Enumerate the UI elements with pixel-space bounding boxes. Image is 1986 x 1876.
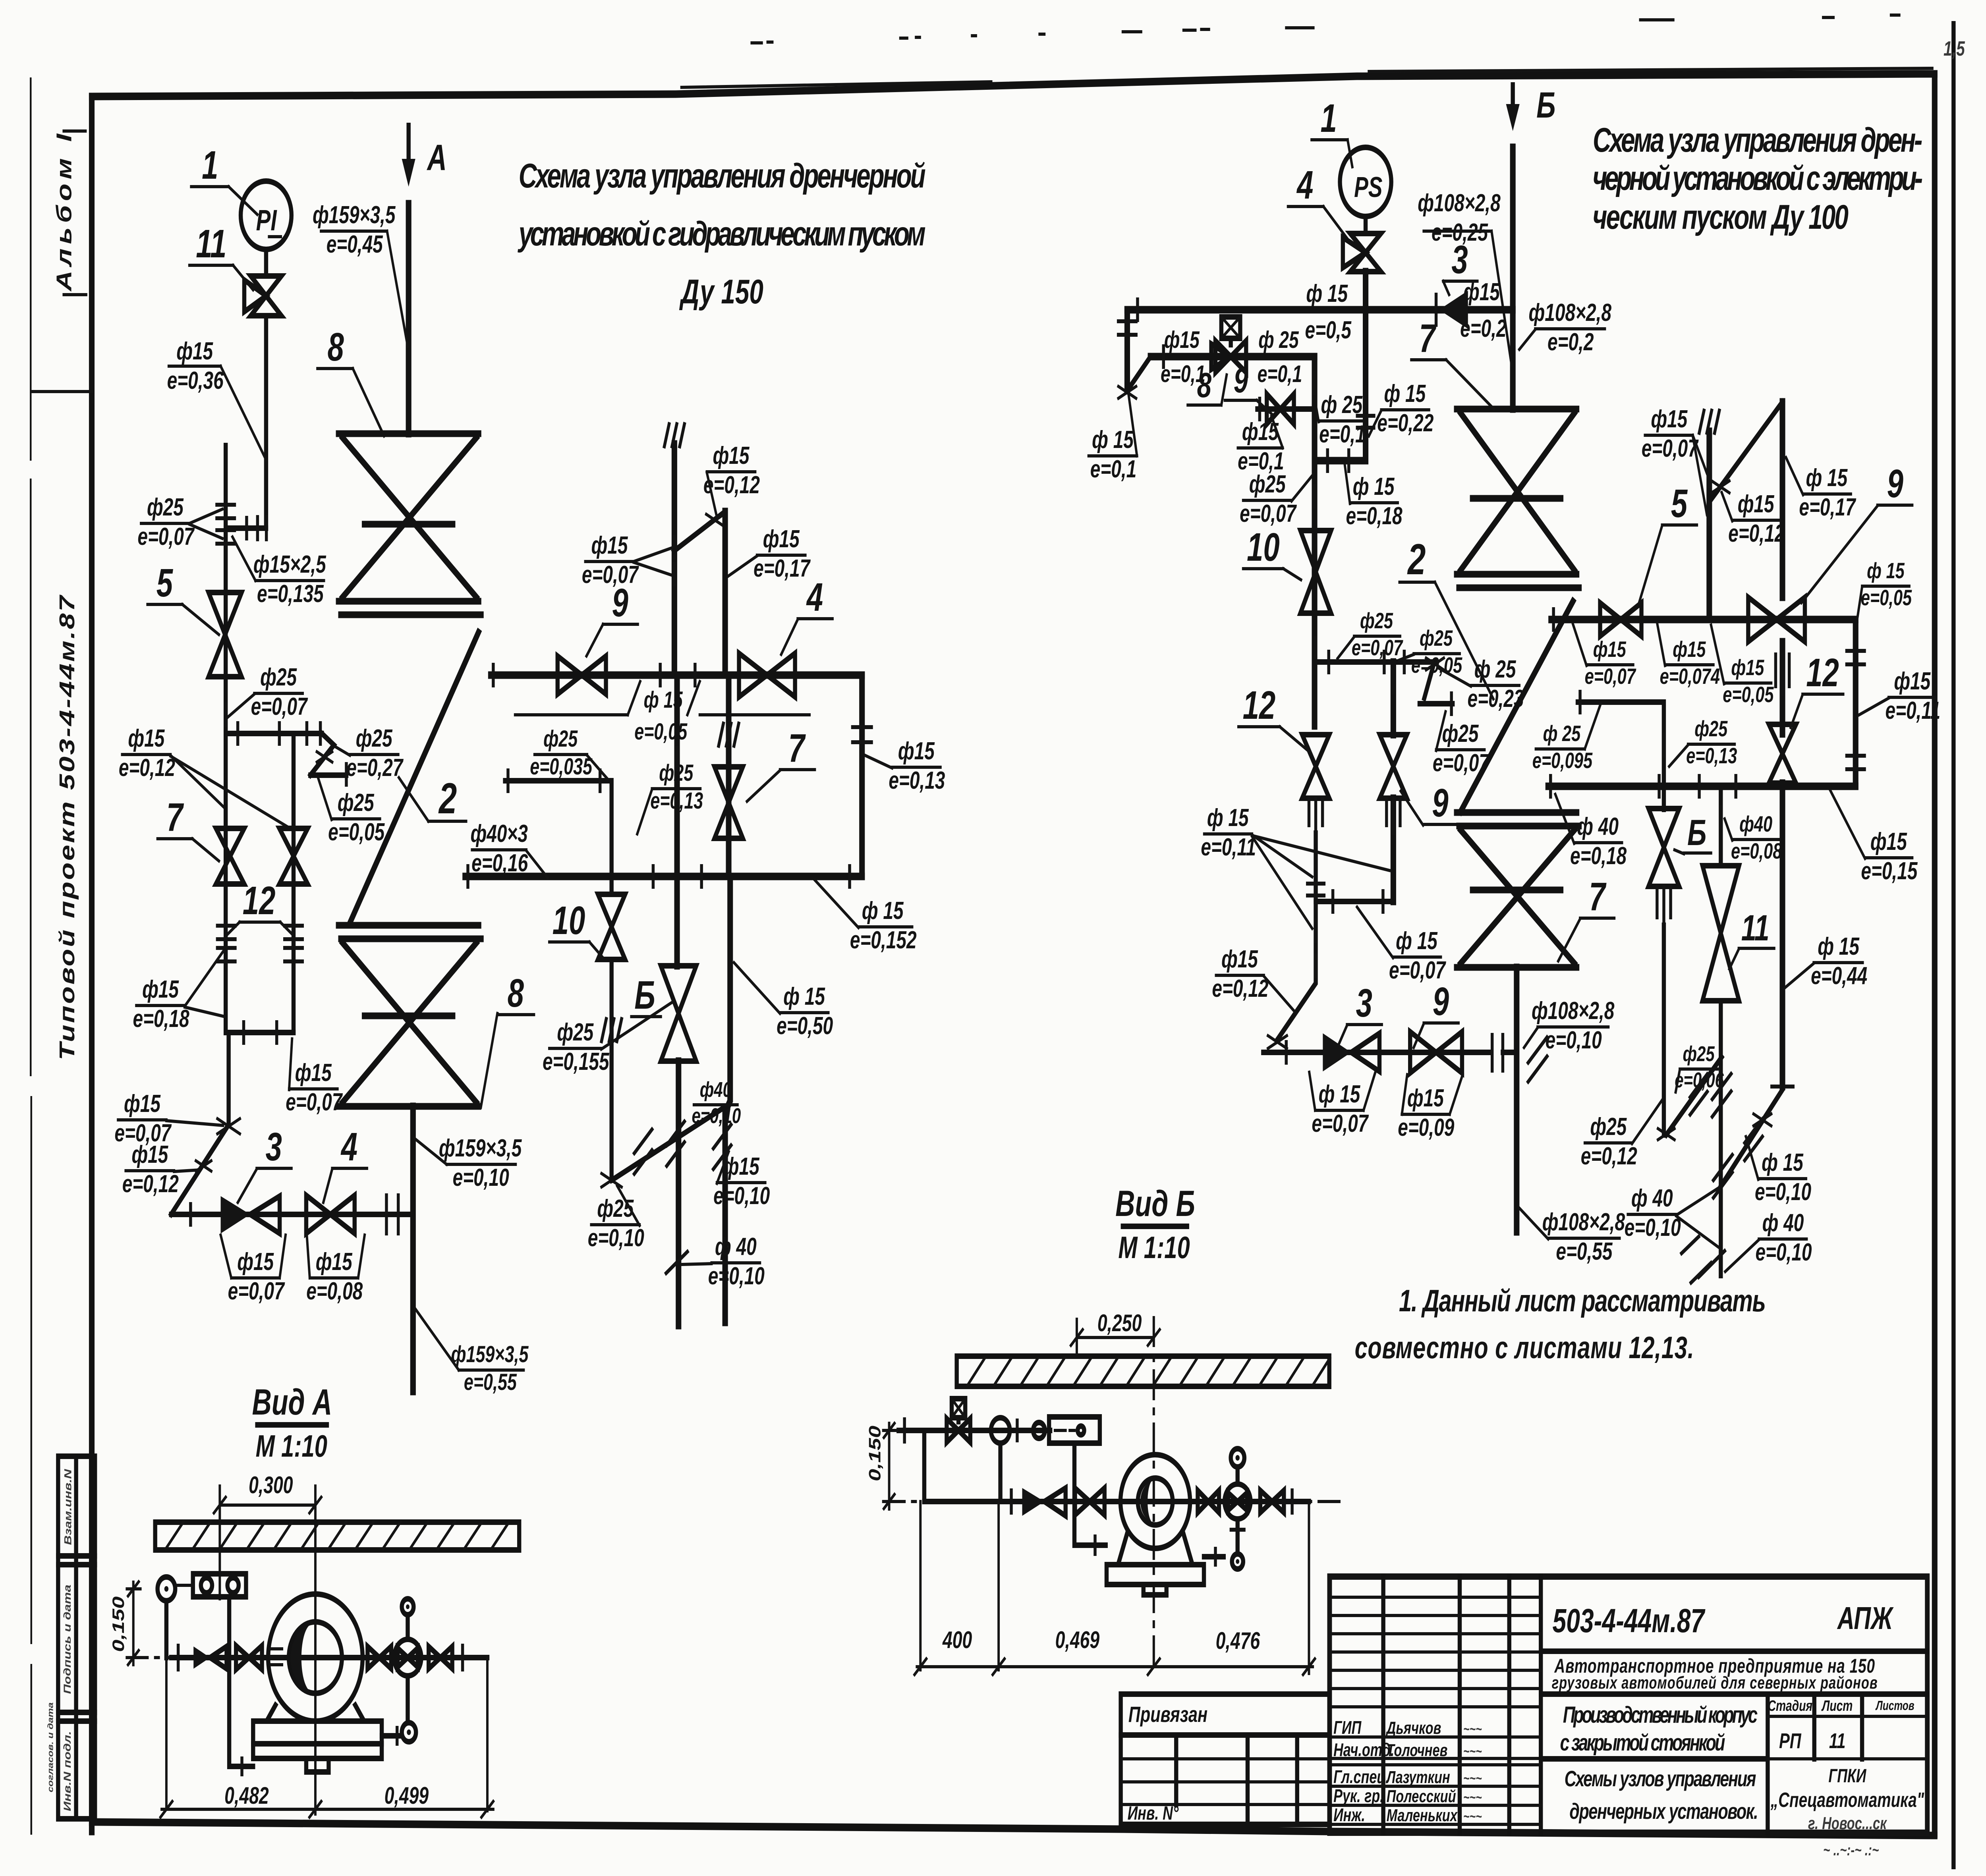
label f15 e=0,07 hm: [1573, 624, 1636, 689]
svg-text:Подпись и дата: Подпись и дата: [62, 1585, 73, 1694]
callout B M: [631, 973, 661, 1017]
right drop VR: [858, 675, 866, 876]
svg-text:„Спецавтоматика": „Спецавтоматика": [1770, 1788, 1924, 1811]
svg-text:11: 11: [196, 221, 226, 266]
svg-text:e=0,12: e=0,12: [1581, 1142, 1637, 1170]
label f15 e=0,11 vr: [1859, 667, 1941, 724]
svg-text:e=0,10: e=0,10: [1755, 1178, 1811, 1205]
tick A main: [461, 1646, 465, 1669]
f15 e=0,1 on H2: [1161, 327, 1206, 388]
gauge circle B: [991, 1418, 1010, 1443]
svg-text:ф108×2,8: ф108×2,8: [1532, 997, 1615, 1024]
svg-text:Вид А: Вид А: [252, 1382, 332, 1422]
svg-text:~~~: ~~~: [1463, 1789, 1482, 1805]
svg-text:e=0,10: e=0,10: [1755, 1238, 1812, 1266]
valve 9d: [1410, 1032, 1462, 1073]
body link right: [1204, 1554, 1224, 1559]
svg-text:e=0,152: e=0,152: [850, 926, 917, 953]
svg-text:3: 3: [1356, 980, 1372, 1025]
svg-text:ф15: ф15: [295, 1059, 332, 1086]
valve B R: [1661, 786, 1667, 809]
label f15 e=0,12 d: [122, 1141, 199, 1197]
label f15 e=0,07 e: [221, 1235, 286, 1305]
main line A: [171, 1655, 487, 1660]
svg-text:0,469: 0,469: [1055, 1627, 1100, 1654]
f15 e=0,5 on H1: [1305, 280, 1351, 344]
tick: [224, 704, 228, 725]
svg-text:ф 25: ф 25: [1258, 327, 1299, 353]
row ГИП: [1333, 1717, 1482, 1738]
svg-text:e=0,135: e=0,135: [257, 580, 324, 607]
label f108x2,8 e=0,55: [1519, 1208, 1625, 1265]
svg-text:ф 15: ф 15: [1818, 932, 1859, 960]
svg-text:3: 3: [1451, 237, 1468, 282]
svg-text:Лазуткин: Лазуткин: [1385, 1768, 1450, 1787]
svg-text:0,300: 0,300: [249, 1472, 293, 1499]
callout 8 R: [1188, 366, 1227, 405]
svg-text:7: 7: [1589, 874, 1607, 919]
svg-text:ф 15: ф 15: [862, 897, 904, 924]
svg-text:Нач.отд.: Нач.отд.: [1333, 1739, 1394, 1760]
circle valve B: [1225, 1449, 1250, 1569]
label f15 e=0,12 vd: [1722, 490, 1785, 547]
svg-text:ф15: ф15: [128, 724, 164, 752]
svg-text:e=0,06: e=0,06: [1675, 1068, 1724, 1092]
middle riser V1: [670, 444, 678, 675]
VD2 diagonal: [1721, 1090, 1782, 1186]
drencher valve 8 lower: [338, 925, 481, 1106]
stub f25 R: [1578, 702, 1664, 786]
label f25 e=0,155: [543, 1002, 672, 1075]
valve 8 solenoid: [1211, 317, 1246, 372]
svg-text:ф 15: ф 15: [1762, 1148, 1803, 1176]
dim 0,300: [214, 1472, 321, 1814]
svg-text:0,150: 0,150: [109, 1596, 128, 1652]
label f25 e=0,27: [335, 724, 404, 781]
svg-text:ф25: ф25: [1694, 716, 1728, 741]
svg-text:0,499: 0,499: [384, 1783, 429, 1809]
right drop A: [486, 1658, 489, 1811]
label f15 e=0,44: [1783, 932, 1867, 989]
svg-text:Схема узла управления дрен-: Схема узла управления дрен-: [1593, 121, 1922, 160]
svg-text:5: 5: [156, 560, 174, 605]
svg-text:ф 15: ф 15: [1867, 558, 1905, 583]
valve A1: [236, 1646, 262, 1669]
V2 lower: [725, 675, 732, 876]
svg-text:e=0,27: e=0,27: [346, 754, 404, 781]
svg-text:ф25: ф25: [338, 789, 374, 816]
box drop B: [1074, 1443, 1106, 1545]
callout 4 L: [323, 1124, 367, 1202]
frame bottom border: [92, 1822, 1935, 1835]
svg-text:ф40: ф40: [700, 1078, 732, 1102]
riser pipe B upper: [1509, 147, 1517, 409]
label f15x2,5 e=0,135: [232, 537, 326, 608]
drop with elbow: [171, 1033, 229, 1214]
label f15 e=0,18: [133, 950, 224, 1033]
horizontal header H2: [1151, 353, 1315, 361]
valve 11 R feed: [1718, 786, 1723, 866]
diag to central: [1666, 1057, 1722, 1135]
svg-text:e=0,12: e=0,12: [1728, 519, 1785, 547]
svg-text:e=0,18: e=0,18: [1346, 502, 1403, 529]
main line B: [924, 1499, 1309, 1504]
svg-text:ф 40: ф 40: [1762, 1209, 1804, 1236]
svg-text:ф15: ф15: [898, 737, 935, 764]
svg-text:Привязан: Привязан: [1128, 1702, 1207, 1727]
svg-text:~~~: ~~~: [1463, 1743, 1482, 1759]
svg-text:e=0,44: e=0,44: [1811, 962, 1867, 989]
check valve B: [1022, 1488, 1066, 1516]
svg-text:ф159×3,5: ф159×3,5: [439, 1134, 522, 1162]
label f25 e=0,07 dr: [1433, 712, 1490, 777]
svg-text:7: 7: [1419, 316, 1437, 360]
svg-text:e=0,07: e=0,07: [251, 693, 308, 720]
svg-text:12: 12: [1243, 683, 1276, 727]
label f25 e=0,07 a: [137, 493, 222, 550]
label f40 e=0,10 rb: [1725, 1209, 1812, 1272]
svg-text:e=0,05: e=0,05: [328, 818, 385, 845]
f15 e=0,2 on H1: [1460, 278, 1506, 342]
callout B R: [1675, 813, 1711, 854]
svg-text:9: 9: [1234, 361, 1248, 400]
svg-text:Маленьких: Маленьких: [1387, 1806, 1458, 1825]
svg-text:ф15: ф15: [1221, 945, 1258, 973]
V2 below ML2: [725, 876, 730, 1322]
drop V6 + H4: [1315, 272, 1366, 461]
svg-text:12: 12: [243, 878, 276, 923]
svg-text:e=0,13: e=0,13: [1686, 743, 1737, 768]
label f15 e=0,10 m: [713, 1152, 770, 1210]
svg-text:7: 7: [166, 795, 184, 839]
frame right border: [1931, 74, 1938, 1834]
svg-text:8: 8: [1197, 366, 1211, 405]
svg-text:PS: PS: [1354, 172, 1382, 203]
break flange: [1492, 1035, 1503, 1071]
svg-text:Б: Б: [634, 973, 655, 1017]
callout 10 R: [1243, 525, 1301, 580]
label f15 e=0,10 r: [1746, 1137, 1811, 1206]
svg-text:e=0,12: e=0,12: [1212, 975, 1268, 1002]
svg-text:ф108×2,8: ф108×2,8: [1542, 1208, 1625, 1235]
svg-text:Ду 150: Ду 150: [679, 273, 763, 311]
svg-text:~ ..~:-~ .:~: ~ ..~:-~ .:~: [1823, 1841, 1879, 1859]
svg-text:Б: Б: [1687, 813, 1706, 853]
svg-text:ф15: ф15: [237, 1248, 274, 1275]
svg-text:ф 15: ф 15: [1384, 380, 1426, 407]
sheet right edge: [1951, 24, 1956, 1866]
bottom dims A: [160, 1783, 493, 1817]
svg-text:ф15: ф15: [142, 975, 179, 1003]
box drain drop: [229, 1597, 253, 1766]
callout 2 R: [1399, 535, 1493, 699]
valve B mid: [661, 966, 696, 1061]
svg-text:ф 40: ф 40: [1577, 813, 1619, 840]
svg-text:ф15: ф15: [316, 1248, 352, 1275]
check valve A: [193, 1646, 226, 1669]
junction box A: [175, 1574, 246, 1597]
label f15 e=0,08: [306, 1235, 365, 1305]
diagonal up to H2: [1127, 357, 1151, 391]
svg-text:ф40×3: ф40×3: [470, 820, 527, 847]
label f15 e=0,05 hm: [1711, 625, 1774, 707]
label f15 e=0,12 r: [1212, 945, 1296, 1013]
svg-text:ф15: ф15: [1407, 1084, 1444, 1112]
svg-text:9: 9: [1887, 461, 1903, 506]
callout 7 Ra: [1411, 316, 1494, 409]
svg-text:e=0,45: e=0,45: [326, 230, 383, 258]
svg-text:ф40: ф40: [1739, 812, 1772, 836]
riser VD: [1706, 431, 1713, 620]
label f15 e=0,07 b3: [1309, 1072, 1375, 1137]
far header HM: [1551, 616, 1855, 623]
drop V5: [1311, 357, 1318, 726]
drain zigzag: [310, 733, 346, 775]
svg-text:АПЖ: АПЖ: [1837, 1600, 1894, 1636]
svg-text:ф15: ф15: [1593, 637, 1627, 662]
callout 3 R: [1443, 237, 1477, 295]
callout 9 Rd: [1414, 979, 1459, 1048]
svg-text:0,250: 0,250: [1097, 1310, 1142, 1337]
personnel rows: [1329, 1737, 1541, 1824]
flange pair: [217, 503, 235, 507]
label f159x3,5 e=0,45: [313, 201, 408, 346]
central pipe down: [1718, 1001, 1723, 1276]
callout 2 (left): [399, 774, 466, 823]
svg-text:ф25: ф25: [260, 663, 297, 691]
label f15 e=0,07 d: [114, 1090, 223, 1146]
svg-text:e=0,18: e=0,18: [1570, 842, 1627, 869]
valve 10 mid: [598, 894, 625, 959]
valve B3: [1260, 1490, 1284, 1513]
valve 11 R: [1702, 866, 1739, 1001]
revision rows: [1329, 1597, 1541, 1707]
svg-text:~~~: ~~~: [1463, 1808, 1482, 1824]
callout 7 L: [158, 795, 219, 861]
svg-text:e=0,08: e=0,08: [1731, 839, 1782, 863]
tick B main2: [1290, 1490, 1294, 1513]
callout 4 R: [1288, 162, 1349, 241]
svg-text:e=0,18: e=0,18: [133, 1005, 189, 1032]
V3 lower: [609, 959, 614, 1180]
valve 9c R: [1380, 735, 1407, 798]
label f15 e=0,22: [1369, 380, 1433, 436]
svg-text:e=0,05: e=0,05: [1861, 585, 1912, 610]
diagonal to V2: [674, 511, 725, 551]
dim 0,250: [1071, 1310, 1160, 1356]
svg-text:ф15: ф15: [1463, 278, 1500, 305]
top assembly line B: [898, 1428, 1050, 1433]
title block columns left: [1383, 1577, 1541, 1833]
stage table: [1768, 1694, 1862, 1833]
svg-text:e=0,13: e=0,13: [889, 766, 945, 794]
svg-text:e=0,10: e=0,10: [692, 1104, 741, 1128]
V5 below H6: [1277, 901, 1316, 1040]
svg-text:4: 4: [806, 575, 823, 619]
label f25 e=0,05 h5: [1399, 626, 1462, 677]
Vid B caption: [1115, 1183, 1195, 1265]
svg-text:ф25: ф25: [1360, 608, 1393, 633]
svg-text:Инж.: Инж.: [1333, 1805, 1365, 1825]
callout 1 R: [1312, 96, 1352, 167]
main line ML2: [465, 873, 862, 880]
svg-text:ф 15: ф 15: [783, 982, 825, 1010]
svg-text:8: 8: [328, 324, 344, 369]
svg-text:ф15: ф15: [131, 1141, 168, 1168]
svg-text:e=0,10: e=0,10: [588, 1224, 644, 1251]
svg-text:Инв.N подл.: Инв.N подл.: [62, 1731, 73, 1811]
check valve 3: [221, 1196, 280, 1233]
svg-text:e=0,16: e=0,16: [471, 849, 528, 876]
lower table: [1121, 1735, 1330, 1824]
stub f25: [505, 781, 612, 894]
row Гл.спец.: [1333, 1766, 1482, 1787]
V3 end + diagonal: [601, 1173, 622, 1187]
label f108x2,8 e=0,25: [1418, 189, 1511, 365]
svg-text:4: 4: [1296, 162, 1313, 207]
svg-text:e=0,05: e=0,05: [1723, 682, 1774, 707]
label m f15 e=0,07: [582, 531, 672, 588]
label f25 e=0,12 r2: [1581, 1099, 1663, 1170]
pressure gauge PI: [241, 181, 292, 249]
svg-text:ф15: ф15: [1738, 490, 1774, 517]
svg-text:Лист: Лист: [1821, 1698, 1853, 1714]
svg-text:e=0,074: e=0,074: [1660, 664, 1720, 689]
break line 2 R: [1461, 601, 1573, 812]
label f15 e=0,07 c: [286, 1039, 343, 1116]
connector H6: [1316, 833, 1393, 901]
svg-text:9: 9: [1432, 780, 1448, 825]
svg-text:ф15: ф15: [1731, 655, 1764, 680]
bottom run H7: [1263, 1050, 1491, 1055]
svg-text:4: 4: [340, 1124, 357, 1169]
frame top border: [92, 74, 1935, 97]
valve 4 three-way: [1343, 216, 1381, 310]
drencher valve 8 upper: [338, 434, 481, 615]
3way valve B: [947, 1399, 970, 1442]
valve B2: [1198, 1490, 1219, 1513]
callout 12 R2: [1791, 650, 1843, 728]
svg-text:e=0,08: e=0,08: [306, 1277, 363, 1305]
svg-text:Схема узла управления дренчер: Схема узла управления дренчерной: [519, 157, 926, 195]
title block right dividers: [1541, 1651, 1927, 1759]
svg-text:ГИП: ГИП: [1333, 1717, 1362, 1738]
svg-text:11: 11: [1741, 908, 1770, 948]
valve 4 bottom: [306, 1195, 355, 1233]
scan noise top: [752, 15, 1899, 43]
label f40 e=0,10 m: [682, 1233, 765, 1289]
svg-text:ф15: ф15: [124, 1090, 160, 1117]
label f40 e=0,10 s: [692, 1078, 741, 1128]
svg-text:ГПКИ: ГПКИ: [1828, 1765, 1866, 1786]
title block outer: [1329, 1577, 1927, 1833]
valve B pipe lower: [1661, 925, 1667, 1135]
svg-text:ф15: ф15: [1651, 405, 1687, 432]
H5 drain: [1420, 662, 1453, 704]
callout 9 Ra: [1225, 361, 1271, 414]
label m f15 e=0,17: [728, 525, 811, 582]
svg-text:РП: РП: [1779, 1729, 1802, 1753]
row Рук. гр.: [1333, 1785, 1482, 1806]
branch pipe left vertical: [223, 446, 228, 1033]
svg-text:ф15: ф15: [713, 442, 749, 469]
gauge stem B: [998, 1443, 1003, 1502]
svg-text:e=0,17: e=0,17: [1799, 493, 1856, 521]
dim 0,150: [109, 1582, 141, 1665]
svg-text:e=0,1: e=0,1: [1319, 420, 1365, 448]
label f15 e=0,07 h6: [1357, 907, 1447, 984]
svg-text:ф 40: ф 40: [715, 1233, 757, 1260]
header line: [226, 731, 322, 736]
left drop B: [922, 1430, 927, 1502]
label f15 e=0,074: [1658, 624, 1720, 689]
big valve 9e: [1748, 597, 1805, 642]
svg-text:ф 25: ф 25: [1543, 721, 1581, 746]
callout 9 Rc: [1401, 780, 1457, 825]
svg-text:e=0,07: e=0,07: [1240, 500, 1297, 527]
label f15 e=0,50: [734, 963, 833, 1040]
valve 10 R: [1300, 531, 1331, 613]
svg-text:2: 2: [438, 774, 457, 823]
ticks V1: [672, 537, 676, 558]
row Нач.отд.: [1333, 1739, 1482, 1760]
valve 5 R: [1600, 603, 1642, 636]
svg-text:ф25: ф25: [356, 724, 392, 752]
valve 9 mid: [558, 656, 606, 694]
callout 11 R: [1729, 908, 1774, 969]
svg-text:ф15: ф15: [591, 531, 628, 559]
svg-text:ф 15: ф 15: [1092, 426, 1134, 453]
centerline B vertical: [1152, 1318, 1155, 1673]
svg-text:e=0,12: e=0,12: [122, 1170, 179, 1197]
dim 0,150 B: [865, 1423, 897, 1509]
svg-text:ф 15: ф 15: [1306, 280, 1348, 307]
ceiling hatched bar A: [155, 1522, 520, 1550]
valve 12 R2: [1769, 724, 1796, 783]
valve 11 three-way: [244, 249, 282, 528]
callout 4 M: [781, 575, 833, 654]
svg-text:Дьячков: Дьячков: [1385, 1718, 1441, 1738]
svg-text:совместно с листами 12,13.: совместно с листами 12,13.: [1355, 1330, 1694, 1365]
valve 7 left: [216, 828, 244, 884]
callout 12 R: [1238, 683, 1310, 752]
gong B: [1107, 1455, 1204, 1595]
svg-text:PI: PI: [256, 204, 278, 237]
svg-text:e=0,17: e=0,17: [753, 554, 811, 582]
label f159x3,5 e=0,10: [414, 1134, 522, 1191]
centerline B: [884, 1500, 1339, 1503]
svg-text:12: 12: [1806, 650, 1839, 695]
svg-text:1,5: 1,5: [1943, 37, 1965, 60]
valve 12 R: [1302, 735, 1329, 798]
svg-text:e=0,22: e=0,22: [1377, 409, 1433, 436]
svg-text:400: 400: [942, 1627, 972, 1654]
label f25 e=0,1 c: [1316, 391, 1366, 448]
label f40 e=0,08: [1725, 812, 1782, 863]
label f25 e=0,07 h5: [1337, 608, 1403, 660]
svg-text:e=0,095: e=0,095: [1532, 748, 1593, 773]
svg-text:ф159×3,5: ф159×3,5: [451, 1341, 528, 1367]
header H5: [1315, 659, 1434, 665]
small circle B: [1033, 1422, 1045, 1438]
stage hdr: [1768, 1698, 1915, 1753]
horizontal header H1: [1127, 306, 1513, 314]
svg-text:e=0,55: e=0,55: [1556, 1237, 1613, 1265]
paper edge line left: [31, 77, 31, 1835]
tick B top: [1015, 1421, 1019, 1440]
body link right A: [382, 1733, 401, 1739]
privyazan box: [1121, 1694, 1330, 1735]
